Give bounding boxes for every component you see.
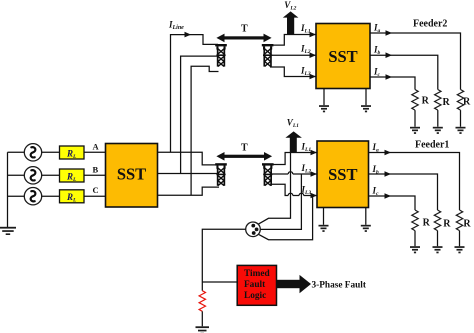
svg-text:R: R xyxy=(423,217,431,228)
wire I_a feeder1 xyxy=(369,153,460,211)
wire I_a feeder2 xyxy=(370,33,461,90)
arrow I_b feeder2 xyxy=(386,52,393,58)
wire fault circle to tee xyxy=(202,229,245,282)
arrow I_a feeder1 xyxy=(385,150,392,156)
ground (feeder2 c) xyxy=(410,127,420,134)
wire T2R to SST3 in1 xyxy=(270,153,317,165)
arrow I_c feeder1 xyxy=(385,193,392,199)
wire SST3 leg right xyxy=(365,208,367,225)
SST U2 (feeder2 transformer) xyxy=(316,24,370,89)
svg-text:R: R xyxy=(443,97,451,108)
wire T2R to SST3 in3 (hops at risers) xyxy=(270,184,317,195)
wire phase C to SST1 xyxy=(84,195,106,197)
wire SST2 leg right xyxy=(365,89,367,106)
wire I_b feeder2 xyxy=(370,55,438,89)
ground (feeder2 b) xyxy=(433,127,443,134)
svg-text:R: R xyxy=(422,95,430,106)
resistor R (feeder1 c) xyxy=(412,210,418,231)
wire I_c feeder2 xyxy=(370,77,415,90)
AC source G1 xyxy=(24,144,41,161)
arrow I_a feeder2 xyxy=(386,30,393,36)
ground (feeder1 b) xyxy=(433,246,443,253)
wire below feeder2 resistors xyxy=(415,110,461,127)
V_L2 arrow xyxy=(283,11,299,34)
svg-text:Fault: Fault xyxy=(244,280,266,290)
fault point circle xyxy=(246,222,261,237)
wire fault tap 1 xyxy=(258,153,291,225)
wire below feeder1 resistors xyxy=(415,231,460,247)
T line arrow (top) xyxy=(216,34,271,43)
ground (SST3 left leg) xyxy=(319,225,329,232)
svg-text:Timed: Timed xyxy=(244,269,270,279)
resistor RL1 box xyxy=(60,146,85,160)
svg-text:SST: SST xyxy=(328,47,357,66)
ground (fault resistor) xyxy=(196,326,210,333)
wire tee down to fault resistor xyxy=(201,282,203,291)
arrow I_c feeder2 xyxy=(386,74,393,80)
wire fault tap 3 xyxy=(258,196,312,240)
ground (feeder1 c) xyxy=(410,246,420,253)
arrow I_b feeder1 xyxy=(385,171,392,177)
svg-text:IL2: IL2 xyxy=(300,44,311,56)
resistor R (feeder2 b) xyxy=(435,90,441,111)
tower T2R xyxy=(262,163,274,186)
ground (SST2 right leg) xyxy=(361,105,371,112)
ground (SST2 left leg) xyxy=(319,105,329,112)
ground (feeder2 a) xyxy=(456,127,466,134)
svg-text:ILine: ILine xyxy=(168,20,184,32)
svg-text:Feeder1: Feeder1 xyxy=(415,140,449,151)
T line arrow (bottom) xyxy=(216,152,272,161)
wire riser 2 to top line xyxy=(181,56,218,173)
wire G1 to RL1 xyxy=(42,151,60,153)
svg-text:C: C xyxy=(93,185,99,195)
arrow into SST3 in3 xyxy=(311,193,318,199)
AC source G3 xyxy=(24,188,41,205)
wire I_c feeder1 xyxy=(369,196,416,210)
3-phase fault arrow xyxy=(277,275,312,293)
wire riser 1 to top line xyxy=(171,35,219,153)
svg-text:IL2: IL2 xyxy=(301,163,312,175)
wire T2R to SST3 in2 (hop at riser1) xyxy=(270,172,317,174)
resistor R (feeder1 b) xyxy=(434,210,440,231)
svg-text:A: A xyxy=(93,141,100,151)
resistor R (feeder1 a) xyxy=(456,210,462,231)
tower T1R xyxy=(262,44,274,67)
svg-text:IL3: IL3 xyxy=(300,66,311,78)
svg-text:IL1: IL1 xyxy=(301,142,312,154)
left source bus wire xyxy=(8,152,25,227)
wire phase B to SST1 xyxy=(84,174,106,176)
wire I_b feeder1 xyxy=(369,174,438,210)
SST U1 (sending transformer) xyxy=(106,144,158,208)
svg-text:VL2: VL2 xyxy=(284,0,296,11)
arrow into SST2 in1 xyxy=(310,32,317,38)
AC source G2 xyxy=(24,167,41,184)
svg-text:Feeder2: Feeder2 xyxy=(413,19,447,30)
svg-text:Ia: Ia xyxy=(373,23,381,35)
svg-text:R: R xyxy=(463,96,471,107)
svg-text:T: T xyxy=(241,143,248,154)
ground (SST3 right leg) xyxy=(361,225,371,232)
I_Line arrow xyxy=(185,32,192,38)
svg-text:T: T xyxy=(241,24,248,35)
wire SST3 leg left xyxy=(323,208,325,225)
svg-text:B: B xyxy=(93,164,99,174)
svg-text:Logic: Logic xyxy=(244,291,266,301)
V_L1 arrow xyxy=(285,131,302,152)
ground (feeder1 a) xyxy=(455,246,465,253)
svg-text:IL1: IL1 xyxy=(300,23,311,35)
svg-text:Ib: Ib xyxy=(373,45,381,57)
wire riser 3 to top line xyxy=(191,66,218,195)
wire T1R to SST2 in3 xyxy=(270,67,316,77)
arrow into SST3 in2 xyxy=(311,171,318,177)
svg-text:IL3: IL3 xyxy=(301,185,312,197)
wire tee to timed fault logic xyxy=(202,281,237,283)
wire T1R to SST2 in2 xyxy=(270,54,316,56)
wire fault tap 2 xyxy=(260,174,301,229)
wire G2 to RL2 xyxy=(42,174,60,176)
wire G3 to RL3 xyxy=(42,195,60,197)
svg-text:SST: SST xyxy=(117,165,146,184)
resistor RL3 box xyxy=(60,190,85,204)
svg-text:Ib: Ib xyxy=(372,164,380,176)
SST U3 (feeder1 transformer) xyxy=(317,141,369,208)
svg-text:R: R xyxy=(443,218,451,229)
arrow into SST2 in3 xyxy=(310,74,317,80)
tower T2L xyxy=(215,163,227,186)
wire SST2 leg left xyxy=(323,89,325,106)
svg-text:R: R xyxy=(463,218,471,229)
wire SST1 out2 to tower T2L xyxy=(158,173,220,175)
ground (source bus) xyxy=(0,227,16,235)
resistor R (feeder2 a) xyxy=(457,90,463,111)
svg-text:Ic: Ic xyxy=(372,186,380,198)
wire fault resistor to ground xyxy=(201,311,203,326)
wire SST1 out3 to tower T2L xyxy=(158,187,220,195)
wire T1R to SST2 in1 xyxy=(270,35,316,46)
arrow into SST3 in1 xyxy=(311,150,318,156)
svg-text:Ia: Ia xyxy=(372,142,380,154)
svg-text:VL1: VL1 xyxy=(287,118,299,130)
tower T1L xyxy=(215,44,227,67)
timed fault logic box xyxy=(237,265,276,305)
svg-text:SST: SST xyxy=(328,165,357,184)
fault resistor (red) xyxy=(199,291,205,312)
wire SST1 out1 to tower T2L xyxy=(158,152,220,165)
svg-text:3-Phase Fault: 3-Phase Fault xyxy=(312,281,367,291)
resistor R (feeder2 c) xyxy=(412,90,418,111)
wire phase A to SST1 xyxy=(84,151,106,153)
resistor RL2 box xyxy=(60,169,85,183)
svg-text:Ic: Ic xyxy=(373,67,381,79)
arrow into SST2 in2 xyxy=(310,52,317,58)
